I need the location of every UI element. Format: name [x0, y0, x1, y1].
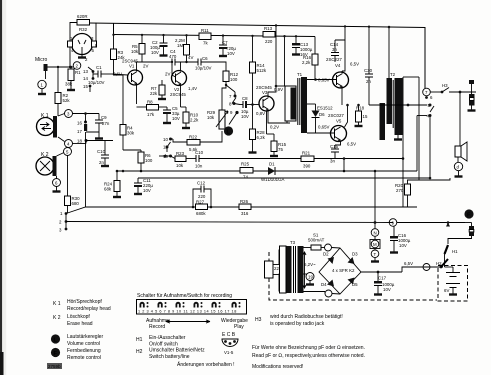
switch group contacts 1-18	[140, 302, 241, 308]
svg-text:27n: 27n	[102, 121, 110, 126]
svg-text:10V: 10V	[241, 114, 249, 119]
svg-text:17k: 17k	[147, 112, 155, 117]
svg-text:V1-5: V1-5	[224, 350, 234, 355]
svg-text:Erase head: Erase head	[67, 321, 93, 327]
svg-text:Read pF or Ω, respectively,unl: Read pF or Ω, respectively,unless otherw…	[252, 353, 365, 359]
svg-text:4 x SFR K2: 4 x SFR K2	[332, 268, 355, 273]
svg-text:H3: H3	[442, 83, 448, 88]
capacitor C14 3n	[330, 25, 346, 62]
DIN socket (Micro)	[68, 34, 97, 68]
svg-text:is operated by radio jack: is operated by radio jack	[270, 321, 325, 327]
capacitor C30 2n	[364, 26, 373, 106]
svg-text:V5: V5	[336, 119, 342, 124]
node 5	[64, 148, 72, 156]
switch contacts 13 14 15	[83, 67, 94, 92]
wire node5 to R30	[67, 156, 69, 197]
legend H3	[255, 314, 343, 327]
capacitor C15 3n	[330, 144, 339, 164]
svg-text:1: 1	[41, 83, 44, 88]
volume control mark L	[224, 126, 233, 135]
svg-text:9: 9	[392, 221, 395, 226]
node 4	[65, 140, 73, 148]
svg-text:4: 4	[67, 142, 70, 147]
resistor R20 270	[395, 178, 450, 207]
capacitor C7 720u 10V	[219, 34, 236, 56]
node circle bridge top	[325, 244, 332, 251]
svg-text:75: 75	[278, 147, 283, 152]
resistor R8 17k	[137, 100, 168, 118]
svg-text:T2: T2	[390, 72, 396, 77]
svg-text:2n: 2n	[99, 160, 104, 165]
resistor R26 316	[239, 199, 251, 216]
svg-text:T1: T1	[297, 72, 303, 77]
svg-text:0,65V: 0,65V	[318, 125, 330, 130]
svg-text:2,2k: 2,2k	[302, 60, 311, 65]
capacitor C10a 2n	[97, 141, 109, 167]
capacitor C13 1000u 16V	[292, 35, 313, 57]
transistor V2 2SC945	[165, 61, 197, 107]
capacitor C16 1000u 10V	[390, 226, 411, 252]
svg-text:1: 1	[60, 211, 63, 216]
svg-text:17: 17	[77, 129, 82, 134]
svg-text:H2: H2	[136, 349, 143, 355]
svg-text:0,9V: 0,9V	[274, 87, 283, 92]
svg-text:C10: C10	[97, 149, 106, 154]
svg-text:C12: C12	[197, 181, 206, 186]
capacitor C4 470	[135, 49, 198, 66]
switch H2	[436, 259, 453, 268]
capacitor C11 220u 10V	[134, 178, 153, 194]
svg-text:16: 16	[77, 121, 82, 126]
svg-text:2SC027: 2SC027	[328, 113, 344, 118]
resistor R12 100	[222, 71, 239, 102]
capacitor C17 1000u 10V	[374, 272, 395, 295]
svg-text:6,5V: 6,5V	[350, 62, 359, 67]
svg-text:R13: R13	[264, 26, 273, 31]
node 3	[65, 110, 73, 118]
svg-text:R25: R25	[241, 162, 250, 167]
svg-text:C10: C10	[195, 150, 204, 155]
head K2 erase	[36, 152, 64, 179]
svg-text:1M: 1M	[177, 43, 183, 48]
svg-text:C8: C8	[242, 96, 248, 101]
motor M	[374, 236, 376, 239]
scan edge left black strip	[0, 0, 2, 375]
head K1 record/replay	[37, 113, 65, 142]
mains plug 220V	[265, 250, 287, 291]
bus y207	[66, 207, 417, 214]
svg-text:10k: 10k	[207, 115, 215, 120]
svg-text:10µ/10V: 10µ/10V	[195, 66, 212, 71]
wire bus from node4 down left column	[85, 132, 87, 207]
svg-text:680: 680	[72, 201, 80, 206]
node 9 on bus	[389, 219, 397, 227]
svg-text:10n: 10n	[195, 164, 203, 169]
svg-text:8: 8	[229, 102, 232, 107]
switch contacts 10 11	[163, 137, 172, 152]
svg-text:2V: 2V	[143, 64, 148, 69]
capacitor C12 220 with bridge	[192, 181, 213, 209]
svg-text:6: 6	[430, 95, 433, 100]
svg-text:2SC945: 2SC945	[170, 92, 186, 97]
svg-text:2V: 2V	[165, 72, 170, 77]
svg-text:Fernbedienung: Fernbedienung	[67, 348, 101, 354]
svg-text:R18: R18	[356, 106, 365, 111]
resistor R6 100	[123, 150, 153, 172]
svg-text:7k: 7k	[203, 41, 208, 46]
svg-text:10k: 10k	[176, 163, 184, 168]
transformer T1	[275, 35, 316, 133]
svg-text:Volume control: Volume control	[67, 341, 100, 347]
svg-text:6,2k: 6,2k	[257, 135, 266, 140]
legend K2	[53, 314, 93, 327]
capacitor C9 27n	[86, 114, 110, 139]
svg-text:22k: 22k	[150, 91, 158, 96]
svg-text:10k: 10k	[131, 49, 139, 54]
switch table box	[137, 300, 247, 315]
motor column nodes	[370, 171, 380, 262]
svg-text:D3: D3	[352, 252, 358, 257]
switch H1	[445, 223, 459, 268]
svg-text:V3: V3	[262, 90, 268, 95]
svg-text:2,2k: 2,2k	[190, 118, 199, 123]
svg-text:512k: 512k	[257, 68, 267, 73]
inner supply rail	[114, 35, 316, 37]
transistor V4 2SC227	[307, 40, 359, 105]
svg-text:K 1: K 1	[53, 301, 61, 307]
terminals 1 2 3	[59, 211, 67, 233]
svg-text:680k: 680k	[196, 211, 206, 216]
svg-text:316: 316	[241, 211, 249, 216]
svg-text:0,8V: 0,8V	[256, 111, 265, 116]
node circle on secondary centre	[306, 273, 314, 281]
resistor R21 390	[301, 151, 404, 173]
svg-text:10µ/10V: 10µ/10V	[88, 80, 105, 85]
svg-text:R32: R32	[79, 27, 88, 32]
main box top rail	[90, 23, 426, 88]
svg-text:18: 18	[77, 139, 82, 144]
svg-text:2: 2	[85, 57, 88, 62]
svg-text:3n: 3n	[330, 159, 335, 164]
svg-text:2759b: 2759b	[48, 364, 61, 369]
svg-text:4V: 4V	[188, 55, 193, 60]
resistor R18 15	[355, 104, 368, 126]
capacitor C5 33u 10V	[163, 106, 180, 123]
svg-text:6: 6	[55, 181, 58, 186]
remote jack below F	[448, 223, 474, 245]
svg-text:Record/replay head: Record/replay head	[67, 306, 111, 312]
svg-text:6,2V~: 6,2V~	[304, 262, 316, 267]
capacitor C2 100u 10V	[150, 34, 168, 56]
node T	[374, 249, 376, 251]
svg-text:D6: D6	[319, 112, 325, 117]
svg-text:10V: 10V	[172, 116, 180, 121]
resistor R27 680k	[196, 200, 208, 217]
switch contact 16/17	[77, 112, 87, 134]
transformer T2	[380, 26, 403, 140]
transistor V5 2SC227	[307, 104, 356, 147]
resistor R22 5,6k	[171, 131, 223, 152]
capacitor C10 10n	[195, 150, 301, 169]
svg-text:R26: R26	[240, 199, 249, 204]
svg-text:C15: C15	[330, 144, 339, 149]
svg-text:500mAT: 500mAT	[308, 238, 325, 243]
svg-text:Ein-/Ausschalter: Ein-/Ausschalter	[149, 335, 186, 341]
node 2 circle	[73, 62, 81, 70]
svg-text:0,65V: 0,65V	[318, 78, 330, 83]
battery 6V	[444, 267, 460, 295]
bus y222	[66, 222, 393, 223]
svg-text:470: 470	[169, 54, 177, 59]
svg-text:1 2 3 4 5 6 7 8 9 10 11 12 1: 1 2 3 4 5 6 7 8 9 10 11 12 13 14 15 16 1…	[138, 310, 237, 314]
legend remote control	[51, 348, 101, 361]
node 10 on 6,5V line	[423, 264, 430, 271]
svg-text:6V: 6V	[444, 288, 449, 293]
svg-text:1,4V: 1,4V	[188, 86, 197, 91]
diode D1 W1D101GA	[261, 162, 284, 183]
svg-text:H1: H1	[452, 249, 458, 254]
svg-text:2SC227: 2SC227	[326, 57, 342, 62]
svg-text:V4: V4	[335, 63, 341, 68]
svg-text:5: 5	[92, 48, 95, 53]
svg-text:Für Werte ohne Bezeichnung pF: Für Werte ohne Bezeichnung pF oder Ω ein…	[252, 345, 365, 351]
svg-text:6,5V: 6,5V	[404, 261, 413, 266]
svg-text:10V: 10V	[227, 51, 235, 56]
transistor V3 2SC945	[256, 24, 290, 129]
long wire bus y178	[138, 177, 430, 179]
svg-text:D1: D1	[269, 162, 275, 167]
svg-text:D4: D4	[321, 282, 327, 287]
resistor R1 38k	[65, 66, 81, 90]
node circle bridge bottom	[325, 290, 332, 297]
dashed mains box	[269, 252, 437, 300]
svg-text:Änderungen vorbehalten !: Änderungen vorbehalten !	[177, 361, 235, 368]
svg-text:T3: T3	[290, 240, 296, 245]
svg-text:R21: R21	[302, 151, 311, 156]
resistor R13 220 (in rail)	[263, 26, 315, 54]
radio jack plug d	[468, 80, 476, 111]
legend H2	[136, 348, 205, 361]
svg-text:220: 220	[265, 39, 273, 44]
svg-text:Modifications reserved!: Modifications reserved!	[252, 364, 303, 370]
svg-text:T: T	[374, 252, 377, 257]
svg-text:390: 390	[303, 164, 311, 169]
potentiometer R29 10k	[207, 102, 228, 129]
svg-text:Play: Play	[234, 324, 244, 330]
transistor pinout E C B	[222, 332, 238, 355]
svg-text:E C B: E C B	[222, 332, 236, 338]
wire y115 contact 4	[417, 115, 427, 117]
svg-text:10V: 10V	[143, 188, 151, 193]
resistor R5 10k	[131, 34, 145, 62]
Micro input	[35, 57, 73, 94]
svg-text:Umschalter Batterie/Netz: Umschalter Batterie/Netz	[149, 348, 205, 354]
dashed battery box	[438, 266, 468, 302]
legend K1	[53, 299, 111, 312]
svg-text:10V: 10V	[399, 243, 407, 248]
svg-text:K 2: K 2	[53, 315, 61, 321]
svg-text:2: 2	[76, 64, 79, 69]
bridge rectifier 4x SFR K2	[319, 248, 361, 294]
svg-text:Hör/Sprechkopf: Hör/Sprechkopf	[67, 299, 102, 305]
resistor R23 10k	[171, 151, 197, 168]
svg-text:620R: 620R	[77, 14, 88, 19]
svg-text:Löschkopf: Löschkopf	[67, 314, 90, 320]
svg-text:C1: C1	[96, 65, 102, 70]
resistor R15 75	[267, 111, 287, 156]
long wire bus y171	[117, 170, 417, 172]
svg-text:3: 3	[91, 36, 94, 41]
svg-text:N: N	[374, 231, 377, 236]
svg-text:68k: 68k	[104, 187, 112, 192]
svg-text:C30: C30	[364, 68, 373, 73]
svg-text:100: 100	[145, 158, 153, 163]
speaker	[454, 91, 467, 177]
resistor R3 24k	[111, 34, 126, 75]
remote control node F	[464, 209, 473, 218]
resistor R25 74	[240, 162, 253, 180]
resistor R4 30k	[120, 75, 135, 150]
switch contacts 5 4	[427, 103, 435, 179]
publisher mark	[47, 363, 62, 369]
transistor V1 2SC945	[122, 59, 148, 105]
direction arrow	[166, 320, 210, 323]
capacitor C1 10u/10V	[88, 65, 112, 85]
resistor R24 68k	[104, 170, 121, 197]
resistor R14 512k	[250, 35, 267, 129]
svg-text:D2: D2	[323, 252, 329, 257]
svg-text:10V: 10V	[383, 287, 391, 292]
contact 19	[159, 154, 172, 159]
svg-text:R8: R8	[147, 100, 153, 105]
diode D6 ES1512	[312, 104, 334, 133]
wire y105 to contact 5	[369, 104, 427, 106]
bridge output wire	[361, 271, 402, 273]
svg-text:V1: V1	[129, 64, 135, 69]
wire mic to V1 base	[112, 74, 128, 75]
svg-text:H1: H1	[136, 337, 143, 343]
svg-text:270: 270	[396, 188, 404, 193]
svg-text:7: 7	[425, 90, 428, 95]
node 6	[53, 179, 61, 187]
svg-text:Micro: Micro	[35, 57, 47, 63]
svg-text:Schalter für Aufnahme/Switch f: Schalter für Aufnahme/Switch for recordi…	[137, 293, 232, 299]
svg-text:wird durch Radiobuchse betätig: wird durch Radiobuchse betätigt!	[270, 314, 343, 320]
svg-text:H3: H3	[255, 317, 262, 323]
svg-text:R22: R22	[189, 135, 198, 140]
svg-text:6,5V: 6,5V	[347, 142, 356, 147]
svg-text:7: 7	[229, 94, 232, 99]
resistor R8b 6,2k	[249, 129, 266, 153]
svg-text:38k: 38k	[65, 82, 73, 87]
resistor R16 2,2k	[302, 54, 318, 80]
svg-text:100: 100	[230, 77, 238, 82]
svg-text:R1: R1	[75, 70, 81, 75]
fuse S1 500mAT	[308, 233, 325, 251]
resistor R9 1M	[175, 34, 190, 63]
resistor R7 22k	[150, 80, 166, 99]
svg-text:3: 3	[59, 228, 62, 233]
svg-text:3: 3	[67, 112, 70, 117]
capacitor C6 10u/10V	[195, 56, 226, 71]
svg-text:2: 2	[59, 220, 62, 225]
svg-text:d: d	[457, 165, 460, 170]
svg-text:10V: 10V	[151, 50, 159, 55]
switch contacts 7 8	[226, 85, 240, 107]
svg-text:10: 10	[163, 137, 168, 142]
svg-text:C17: C17	[378, 276, 387, 281]
svg-text:R11: R11	[201, 28, 209, 33]
svg-text:5: 5	[66, 150, 69, 155]
legend volume control	[51, 334, 104, 347]
svg-text:Lautstärkeregler: Lautstärkeregler	[67, 334, 103, 340]
svg-text:0,2V: 0,2V	[270, 125, 279, 130]
svg-text:C9: C9	[101, 115, 107, 120]
T2 secondary loop	[403, 76, 419, 78]
node N	[371, 229, 379, 237]
svg-text:M: M	[373, 242, 377, 247]
svg-text:Record: Record	[149, 324, 165, 330]
legend H1	[136, 335, 186, 348]
svg-text:Switch battery/line: Switch battery/line	[149, 354, 190, 360]
svg-text:13: 13	[83, 69, 88, 74]
svg-text:19: 19	[308, 275, 313, 280]
capacitor C8 10u 10V	[240, 96, 259, 119]
svg-text:15: 15	[363, 114, 368, 119]
node 7 circle	[423, 88, 433, 100]
resistor R32 620R	[70, 14, 96, 41]
svg-text:9: 9	[230, 110, 233, 115]
svg-text:Remote control: Remote control	[67, 355, 101, 361]
svg-text:74: 74	[243, 175, 248, 180]
svg-text:30k: 30k	[127, 131, 135, 136]
svg-text:ES1512: ES1512	[317, 106, 333, 111]
resistor R11 7k (in rail)	[199, 28, 211, 46]
svg-text:220: 220	[198, 194, 206, 199]
svg-text:52k: 52k	[63, 98, 71, 103]
resistor R2 52k	[55, 67, 70, 116]
switch H3	[430, 83, 476, 93]
resistor R30 680	[65, 196, 81, 213]
secondary voltage arrow 6,2V~	[303, 252, 316, 288]
transformer T3	[280, 240, 326, 293]
resistor R10 2,2k	[181, 107, 200, 128]
svg-text:C6: C6	[202, 56, 208, 61]
svg-text:R23: R23	[176, 151, 185, 156]
